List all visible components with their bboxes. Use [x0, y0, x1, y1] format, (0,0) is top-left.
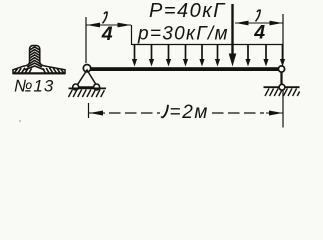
tee cross-section symbol [13, 46, 65, 75]
left l/4 fraction text [101, 12, 113, 45]
bottom dimension label l=2m [162, 102, 209, 123]
right l/4 dimension line [235, 21, 283, 26]
right support link [280, 72, 282, 86]
svg-text:p=30кГ/м: p=30кГ/м [137, 23, 229, 44]
right support lower hinge circle [279, 84, 285, 90]
left support ground line [69, 87, 107, 89]
stray speck [19, 120, 21, 122]
left l/4 dimension line [87, 23, 132, 28]
label No.13 [14, 77, 54, 96]
right dimension extension line (top) [282, 14, 284, 63]
left dimension right extension down to load line [131, 25, 133, 45]
left support ground hatching [69, 89, 105, 97]
bottom dimension right extension line [282, 91, 284, 128]
left support rollers [73, 84, 100, 90]
left support pin hinge circle [83, 65, 90, 72]
right support upper hinge circle [278, 66, 284, 72]
bottom dimension left extension line [88, 103, 90, 118]
distributed load top line [132, 44, 283, 46]
beam [90, 67, 279, 71]
right support ground line [264, 86, 300, 88]
right wing hatch [43, 67, 65, 74]
svg-text:=2м: =2м [170, 102, 210, 123]
svg-text:4: 4 [253, 21, 265, 43]
point load P big arrow [229, 4, 237, 67]
svg-text:4: 4 [101, 23, 113, 45]
right l/4 fraction text [253, 10, 265, 43]
left support triangle [76, 70, 98, 87]
svg-text:№13: №13 [14, 77, 54, 96]
stem herringbone hatch [25, 47, 45, 70]
bottom dimension line with arrows [89, 111, 283, 116]
right support ground hatching [265, 88, 300, 96]
label P=40kG [149, 0, 226, 22]
distributed load arrows [132, 45, 285, 67]
left dimension extension line [85, 17, 87, 63]
label p=30kG/m [137, 23, 229, 44]
left wing hatch [14, 67, 32, 74]
svg-text:P=40кГ: P=40кГ [149, 0, 226, 22]
